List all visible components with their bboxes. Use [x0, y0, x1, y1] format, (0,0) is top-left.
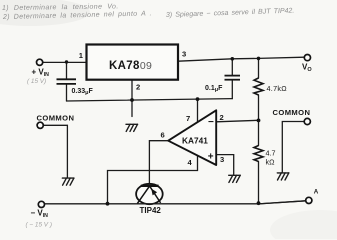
- svg-text:+: +: [208, 151, 214, 162]
- svg-text:2: 2: [220, 113, 224, 122]
- svg-text:COMMON: COMMON: [37, 114, 75, 123]
- svg-text:KA7809: KA7809: [109, 60, 152, 72]
- svg-text:A: A: [314, 189, 319, 196]
- svg-text:−: −: [208, 117, 214, 128]
- svg-text:0.1μF: 0.1μF: [205, 85, 223, 93]
- svg-text:6: 6: [161, 131, 165, 140]
- svg-text:4.7kΩ: 4.7kΩ: [267, 84, 288, 93]
- svg-text:2: 2: [136, 82, 140, 91]
- svg-text:( 15 V): ( 15 V): [27, 78, 46, 85]
- svg-text:TIP42: TIP42: [140, 206, 162, 215]
- svg-text:0.33μF: 0.33μF: [72, 88, 94, 96]
- svg-text:3: 3: [182, 50, 186, 59]
- svg-text:kΩ: kΩ: [266, 158, 276, 167]
- svg-text:4.7: 4.7: [266, 149, 276, 158]
- svg-text:COMMON: COMMON: [273, 108, 311, 117]
- svg-text:KA741: KA741: [182, 136, 208, 146]
- svg-text:3: 3: [220, 155, 224, 164]
- svg-text:( − 15 V ): ( − 15 V ): [26, 222, 52, 229]
- svg-text:7: 7: [186, 114, 190, 123]
